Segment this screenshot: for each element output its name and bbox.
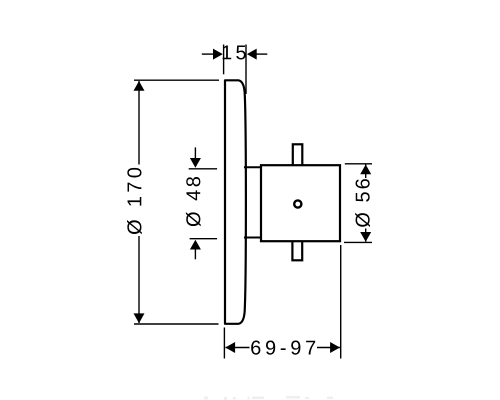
- dim 56: bottom extension line: [344, 241, 372, 243]
- dim 56: lower dimension line: [365, 229, 367, 242]
- dim 170: top arrow: [134, 81, 145, 91]
- neck top line: [244, 166, 261, 168]
- dim 15: right extension line: [245, 45, 247, 95]
- dim 69-97: right dimension line: [317, 347, 340, 349]
- dim 170: upper dimension line: [138, 81, 140, 165]
- dim 15: right arrow: [247, 49, 257, 60]
- top tab: [293, 144, 303, 168]
- dim 56: bottom arrow: [360, 232, 371, 242]
- dim 15: left leader: [202, 53, 214, 55]
- dim 170: bottom extension line: [134, 323, 219, 325]
- dim 56: top arrow: [360, 165, 371, 175]
- dim 48: bottom leader: [194, 249, 196, 259]
- dim 15: label: [223, 46, 232, 60]
- dim 170: lower dimension line: [138, 236, 140, 323]
- neck bottom line: [244, 237, 261, 239]
- dim 15: left arrow: [213, 49, 223, 60]
- dim 56: label: [355, 179, 370, 227]
- dim 15: right leader: [256, 53, 267, 55]
- dim 48: label: [186, 177, 201, 226]
- dim 170: top extension line: [134, 79, 219, 81]
- dim 15: left extension line: [223, 45, 225, 75]
- dim 69-97: left arrow: [225, 342, 235, 353]
- faint cut-off caption remnants at bottom edge: [204, 396, 333, 400]
- dim 48: bottom tick: [190, 238, 218, 240]
- dim 69-97: left extension line: [223, 328, 225, 359]
- center screw circle: [294, 200, 301, 207]
- dim 56: top extension line: [345, 163, 372, 165]
- dim 48: top tick: [189, 168, 217, 170]
- valve body square: [261, 165, 340, 241]
- bottom tab: [292, 238, 302, 260]
- dim 69-97: right extension line: [340, 245, 342, 359]
- dim 69-97: right arrow: [330, 342, 340, 353]
- dim 170: bottom arrow: [134, 313, 145, 323]
- dim 69-97: label: [251, 341, 315, 355]
- escutcheon plate profile: [225, 80, 246, 323]
- dim 170: label: [127, 168, 142, 234]
- dim 48: top arrow: [190, 158, 201, 168]
- dim 56: upper dimension line: [365, 165, 367, 179]
- dim 48: bottom arrow: [190, 240, 201, 250]
- dim 69-97: left dimension line: [226, 347, 250, 349]
- dim 48: top leader: [194, 147, 196, 159]
